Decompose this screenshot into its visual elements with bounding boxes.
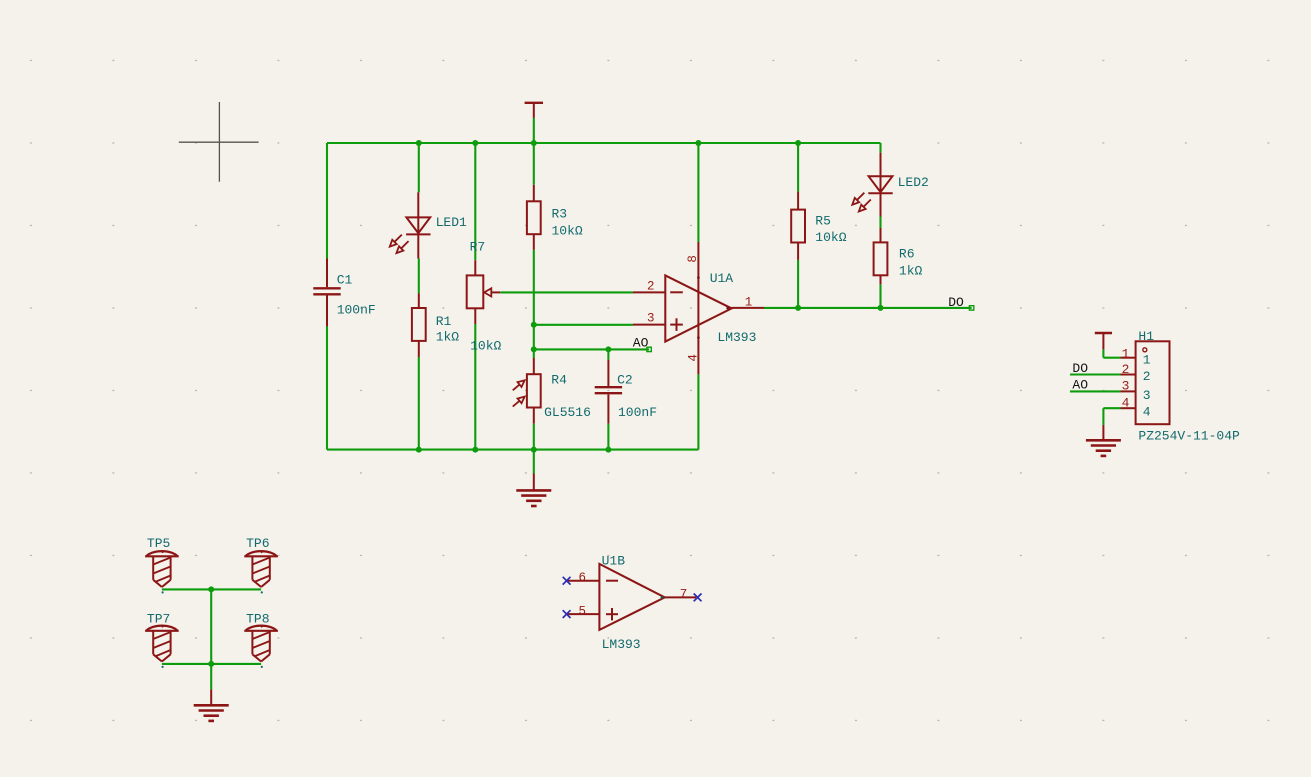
svg-text:1kΩ: 1kΩ <box>899 264 923 279</box>
svg-text:DO: DO <box>948 295 964 310</box>
svg-text:100nF: 100nF <box>618 405 657 420</box>
svg-text:8: 8 <box>686 255 700 263</box>
svg-text:10kΩ: 10kΩ <box>552 224 583 239</box>
svg-text:4: 4 <box>687 354 701 362</box>
svg-text:1: 1 <box>745 296 753 310</box>
svg-text:AO: AO <box>1072 377 1088 392</box>
svg-text:2: 2 <box>1143 369 1151 384</box>
svg-text:TP6: TP6 <box>246 536 269 551</box>
svg-text:C1: C1 <box>337 273 353 288</box>
svg-text:3: 3 <box>1143 388 1151 403</box>
svg-text:GL5516: GL5516 <box>544 405 591 420</box>
svg-text:U1B: U1B <box>602 554 626 569</box>
svg-text:1: 1 <box>1143 353 1151 368</box>
svg-text:2: 2 <box>647 280 655 294</box>
svg-text:H1: H1 <box>1138 329 1154 344</box>
svg-text:LED1: LED1 <box>436 215 467 230</box>
svg-text:1kΩ: 1kΩ <box>436 329 460 344</box>
svg-text:3: 3 <box>647 312 655 326</box>
svg-text:2: 2 <box>1122 362 1130 377</box>
svg-text:10kΩ: 10kΩ <box>470 339 501 354</box>
svg-text:R5: R5 <box>815 213 831 228</box>
svg-text:AO: AO <box>633 335 649 350</box>
svg-text:LM393: LM393 <box>602 637 641 652</box>
svg-text:7: 7 <box>680 588 688 602</box>
svg-text:PZ254V-11-04P: PZ254V-11-04P <box>1138 429 1240 444</box>
svg-text:C2: C2 <box>617 373 633 388</box>
svg-text:100nF: 100nF <box>337 302 376 317</box>
svg-text:5: 5 <box>578 604 586 618</box>
svg-text:TP8: TP8 <box>246 611 269 626</box>
svg-text:3: 3 <box>1122 379 1130 394</box>
svg-text:R3: R3 <box>552 206 568 221</box>
svg-text:TP7: TP7 <box>147 611 170 626</box>
svg-text:4: 4 <box>1143 405 1151 420</box>
svg-text:R7: R7 <box>470 239 486 254</box>
svg-text:DO: DO <box>1072 361 1088 376</box>
svg-text:R1: R1 <box>436 314 452 329</box>
svg-text:6: 6 <box>578 571 586 585</box>
svg-text:4: 4 <box>1122 396 1130 411</box>
svg-text:1: 1 <box>1122 347 1130 362</box>
svg-text:R6: R6 <box>899 247 915 262</box>
svg-text:LED2: LED2 <box>898 175 929 190</box>
svg-text:10kΩ: 10kΩ <box>815 230 846 245</box>
svg-text:LM393: LM393 <box>717 330 756 345</box>
svg-text:TP5: TP5 <box>147 536 170 551</box>
svg-text:R4: R4 <box>551 373 567 388</box>
svg-text:U1A: U1A <box>710 271 734 286</box>
